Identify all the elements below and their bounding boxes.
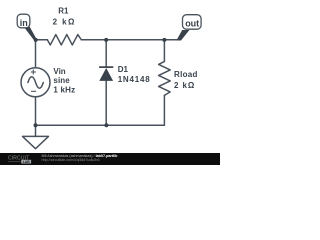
wire Rload bottom to bottom rail corner (36, 95, 165, 125)
node flag in (17, 14, 36, 41)
node flag out (176, 15, 201, 41)
svg-text:D1: D1 (118, 65, 129, 74)
footer CircuitLab logo (8, 156, 31, 164)
svg-text:sine: sine (53, 76, 70, 85)
wire top right (R1 to out flag) (81, 39, 177, 41)
junction node diode bottom (104, 123, 108, 127)
svg-text:in: in (20, 18, 28, 28)
footer bar (0, 153, 220, 165)
svg-text:Vin: Vin (53, 67, 65, 76)
wire diode top (top rail to D1) (105, 40, 107, 67)
svg-text:Rload: Rload (174, 70, 198, 79)
wire Rload top (163, 40, 165, 62)
Vin minus sign (31, 90, 36, 92)
junction node top-left (34, 38, 38, 42)
svg-text:R1: R1 (58, 7, 69, 16)
wire left rail top (junction to Vin) (35, 40, 37, 68)
svg-text:out: out (185, 19, 199, 29)
resistor R1 (47, 35, 81, 45)
junction node bottom-left (34, 123, 38, 127)
junction node diode top (104, 38, 108, 42)
svg-text:1 kHz: 1 kHz (53, 85, 75, 94)
voltage source Vin circle (21, 68, 50, 97)
svg-text:1N4148: 1N4148 (118, 75, 151, 84)
wire top left (node in to R1) (36, 39, 48, 41)
Vin plus sign (31, 70, 36, 92)
diode D1 symbol (99, 68, 113, 81)
wire diode bottom (D1 to bottom rail) (105, 81, 107, 125)
Vin sine symbol (28, 77, 43, 88)
svg-text:LAB: LAB (23, 160, 31, 164)
svg-text:2 kΩ: 2 kΩ (174, 81, 195, 90)
junction node Rload top (162, 38, 166, 42)
svg-text:2 kΩ: 2 kΩ (53, 17, 76, 26)
ground stub (35, 125, 37, 136)
resistor Rload (159, 61, 171, 95)
svg-text:http://circuitlab.com/c/q56d7u: http://circuitlab.com/c/q56d7udk2b6 (42, 158, 100, 162)
ground symbol triangle (23, 136, 49, 148)
wire left rail bottom (Vin to bottom rail) (35, 97, 37, 125)
